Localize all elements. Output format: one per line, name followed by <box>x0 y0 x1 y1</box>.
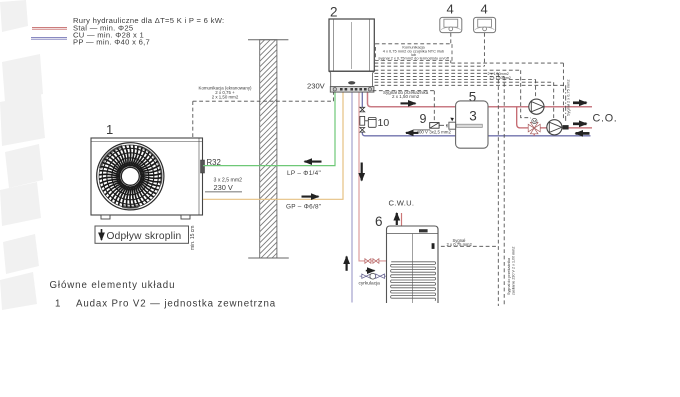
svg-text:sygnał 2 x 0,75mm2 do termosta: sygnał 2 x 0,75mm2 do termostatu on/off <box>378 56 449 61</box>
svg-text:Odpływ skroplin: Odpływ skroplin <box>107 231 182 242</box>
wire: gas GP line (orange) <box>203 92 343 199</box>
watermark band left edge <box>0 0 45 310</box>
svg-text:LP – Φ1/4": LP – Φ1/4" <box>287 170 321 177</box>
wire: drop to pump 1 <box>535 80 537 99</box>
legend red line (Stal) <box>32 27 67 29</box>
svg-text:230 V: 230 V <box>214 183 233 192</box>
arrow LP left <box>305 161 322 163</box>
svg-text:M: M <box>533 119 536 124</box>
svg-text:GP – Φ6/8": GP – Φ6/8" <box>286 203 321 210</box>
legend blue line (CU) <box>31 37 67 39</box>
cyrkulacja pump <box>362 273 385 279</box>
arrow up near DHW <box>346 257 348 271</box>
DHW tank 6 <box>375 214 438 303</box>
wire: signal dash-dot to pump 2 connector <box>565 85 567 122</box>
valves on DHW red entry <box>365 259 379 264</box>
wire: long drop 1 to bottom <box>497 73 499 306</box>
wire: relay signal from boiler <box>373 91 435 123</box>
arrow C.O. return <box>576 132 590 135</box>
wire: relay to heater dash-dot <box>439 124 449 126</box>
svg-text:4: 4 <box>481 2 488 17</box>
svg-text:PP — min. Φ40 x 6,7: PP — min. Φ40 x 6,7 <box>73 38 150 47</box>
wire: dashed bus from boiler right <box>375 62 564 64</box>
arrow C.O. supply mid <box>573 122 587 125</box>
svg-text:2: 2 <box>330 5 338 20</box>
arrow left on blue return <box>406 132 419 134</box>
svg-text:C.O.: C.O. <box>593 112 618 124</box>
wire: light red drop to DHW tank + entry <box>359 92 387 261</box>
svg-text:6: 6 <box>375 214 383 229</box>
label thermostat box <box>378 45 449 61</box>
wire: thermostat 2 drop <box>483 33 485 66</box>
svg-text:1: 1 <box>106 122 113 137</box>
outdoor unit Audax <box>91 138 205 219</box>
svg-text:400 V 3x2,5 mm2: 400 V 3x2,5 mm2 <box>417 129 452 134</box>
pump 1 <box>529 99 544 114</box>
svg-text:2 x 1,50mm2: 2 x 1,50mm2 <box>490 76 511 80</box>
svg-text:C.W.U.: C.W.U. <box>389 199 415 208</box>
arrow right sygnal przekaznika <box>401 102 416 104</box>
flow arrows <box>302 103 590 271</box>
arrow down red/blue pair <box>361 163 363 181</box>
wire: long drop 2 to bottom <box>503 76 505 306</box>
arrow right above cyrkulacja <box>366 270 375 272</box>
boiler unit 2 <box>307 5 374 93</box>
svg-text:230V: 230V <box>307 81 326 90</box>
wire: thermostat 1 drop <box>450 33 452 63</box>
svg-text:10: 10 <box>378 117 390 129</box>
svg-text:4: 4 <box>447 2 454 17</box>
wire: drop to mixing valve actuator <box>521 70 531 118</box>
svg-text:2 x 0,75 mm2: 2 x 0,75 mm2 <box>447 242 473 247</box>
svg-text:Główne elementy układu: Główne elementy układu <box>50 280 176 291</box>
wire: CH return blue (boiler to C.O.) <box>362 92 590 136</box>
svg-text:1: 1 <box>55 299 61 310</box>
wall (hatched) <box>248 17 289 286</box>
svg-text:9: 9 <box>420 112 427 126</box>
legend text <box>73 16 224 47</box>
wire: drop right of pump 2 <box>562 63 564 120</box>
wire: gas LP line (green) <box>203 92 335 166</box>
svg-text:min. 15 cm: min. 15 cm <box>190 226 196 250</box>
heater element in tank 3 <box>449 122 456 129</box>
svg-text:zasilanie 230 V 2 x 1,00 mm2: zasilanie 230 V 2 x 1,00 mm2 <box>512 247 516 295</box>
dashed text box <box>376 44 453 61</box>
svg-text:2 x 1,50 mm2: 2 x 1,50 mm2 <box>392 94 420 99</box>
svg-text:R32: R32 <box>207 158 221 167</box>
buffer tank 3 <box>447 90 488 149</box>
condensate box: Odplyw skroplin <box>95 226 196 250</box>
filter assembly 10 <box>360 107 389 132</box>
pump 2 <box>547 120 569 135</box>
svg-text:Sygnał do przekaźnika: Sygnał do przekaźnika <box>507 257 511 295</box>
wire: blue drop to DHW tank <box>351 92 353 303</box>
arrow up C.W.U. <box>396 213 398 225</box>
svg-text:2 x 1,50 mm2: 2 x 1,50 mm2 <box>212 94 239 99</box>
wire: DHW tank signal <box>435 245 499 247</box>
thermostat 4 (right) <box>474 2 496 33</box>
mixing valve with M actuator <box>528 118 540 133</box>
svg-text:cyrkulacja: cyrkulacja <box>359 280 381 286</box>
label komunikacja outdoor <box>199 85 252 99</box>
wire: red branch to mixing valve and pump 2 <box>517 107 592 136</box>
svg-text:3: 3 <box>469 109 477 124</box>
thermostat 4 (left) <box>440 2 462 33</box>
wire: communication cable outdoor unit (dashed) <box>193 92 334 137</box>
svg-text:Sygnał 2 x 0,75 mm2: Sygnał 2 x 0,75 mm2 <box>565 79 570 116</box>
arrow C.O. supply top <box>573 101 587 104</box>
wire: red stub to C.W.U. <box>401 213 403 226</box>
arrow GP right <box>302 196 319 198</box>
wire: drop to pump 2 <box>553 82 555 119</box>
fan <box>97 143 164 210</box>
wire: cyrkulacja line <box>360 275 388 277</box>
relay 9 <box>414 112 452 134</box>
wire: CH supply red main (boiler to C.O.) <box>368 92 593 107</box>
svg-text:Audax Pro V2 — jednostka zewn: Audax Pro V2 — jednostka zewnetrzna <box>76 299 276 310</box>
